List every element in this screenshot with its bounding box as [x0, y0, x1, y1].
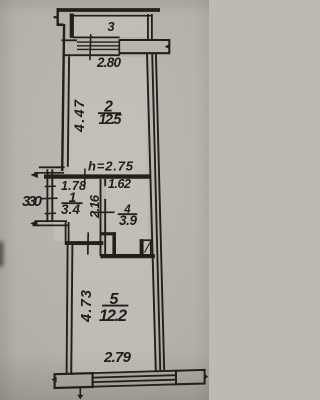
svg-text:5: 5 [110, 291, 120, 308]
svg-text:2.16: 2.16 [87, 194, 102, 219]
svg-text:12.2: 12.2 [99, 307, 127, 325]
svg-text:3.4: 3.4 [61, 202, 80, 217]
svg-text:2.80: 2.80 [96, 55, 121, 70]
svg-text:330: 330 [22, 193, 43, 210]
svg-text:4.73: 4.73 [79, 290, 95, 323]
svg-text:4.47: 4.47 [71, 99, 87, 133]
svg-text:1.62: 1.62 [108, 177, 131, 191]
svg-text:12.5: 12.5 [99, 112, 123, 128]
svg-text:h=2.75: h=2.75 [88, 159, 134, 174]
svg-text:3: 3 [107, 19, 115, 34]
svg-text:3.9: 3.9 [119, 213, 137, 228]
svg-text:2.79: 2.79 [103, 349, 132, 366]
